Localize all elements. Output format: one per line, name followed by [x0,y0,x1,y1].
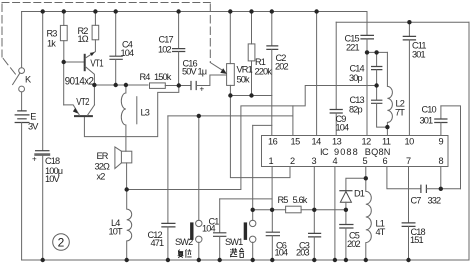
dashed link to switch lever [3,59,15,75]
junction C14 top [374,50,378,54]
svg-text:301: 301 [412,50,426,60]
svg-text:C17: C17 [159,35,174,45]
wire select net [253,209,286,211]
junction C14-C13 node [374,83,378,87]
junction pin3 / C3 node [312,208,316,212]
wire C15 node [367,51,387,53]
wire C12/SW2 net [168,106,293,136]
switch SW2 [198,116,200,220]
wire emitter rail y85 [94,84,148,86]
junction ground rail / SW1 [251,258,255,262]
capacitor C12 [167,116,169,223]
junction ground rail / C12 [166,258,170,262]
svg-text:VT1: VT1 [90,58,103,70]
bottom rail [22,259,469,261]
wire pin6 to C7 [387,167,421,189]
wire SW1 to pin16 riser [253,124,272,126]
junction ground rail / C5 [344,258,348,262]
svg-text:1Ω: 1Ω [78,34,89,44]
junction ground rail / L4 [125,258,129,262]
svg-text:7T: 7T [395,108,405,118]
capacitor C18 100u feed wire [42,12,44,151]
svg-text:7: 7 [406,156,411,166]
capacitor C16 [191,82,196,90]
wire left drop to switch [21,12,23,68]
resistor R4 [150,83,166,89]
junction C15 bottom node [365,50,369,54]
junction ground rail / C1 [218,258,222,262]
IC pin numbers and part number [268,137,444,167]
dashed enclosure top edge [2,2,210,4]
junction C4 / emitter wire [114,83,118,87]
reset label hanzi FU [178,250,184,258]
wire switch to battery [21,92,23,111]
resistor R5 [286,206,302,213]
svg-text:104: 104 [275,248,289,258]
svg-text:150k: 150k [154,72,172,82]
capacitor C14 [376,52,378,66]
junction top rail / C18 [41,9,45,13]
svg-text:50k: 50k [237,75,251,85]
potentiometer VR1 [229,12,231,64]
capacitor C17 [178,12,180,49]
svg-text:4T: 4T [376,227,386,237]
svg-text:32Ω: 32Ω [95,161,111,171]
junction top rail / R2 [93,9,97,13]
svg-text:9088: 9088 [334,147,359,157]
junction top rail / C17 [176,9,180,13]
capacitor C6 [271,210,273,232]
svg-text:R5: R5 [278,195,289,205]
junction pin1 / C6 node [270,208,274,212]
select label hanzi TAI [239,248,244,257]
SW2 button bar (within switch group) [198,242,200,260]
capacitor C15 [366,12,368,36]
svg-text:10T: 10T [109,227,124,237]
svg-text:SW2: SW2 [175,237,193,247]
VR1 adjust arrow [220,68,227,74]
svg-text:332: 332 [428,196,442,206]
svg-text:301: 301 [420,116,434,126]
wire pin5 node [365,167,367,179]
VT2 emitter arrow [73,108,78,114]
junction ground rail / C18 151 [406,258,410,262]
svg-text:104: 104 [336,123,350,133]
junction L3 top [124,83,128,87]
inductor L3 [121,85,126,151]
svg-text:IC: IC [320,147,329,157]
inductor L1 [366,178,372,260]
svg-text:9014x2: 9014x2 [65,75,94,87]
junction speaker / L4 node [125,187,129,191]
Chinese labels drawn as strokes: fuwei (reset) under SW2, xuantai (select) under SW1 [178,248,244,258]
svg-text:C13: C13 [350,95,365,105]
svg-text:6: 6 [383,156,388,166]
svg-text:16: 16 [268,137,278,147]
junction top rail / R1 [249,9,253,13]
capacitor C1 [220,198,272,200]
wire pin11 riser [386,127,388,135]
svg-text:221: 221 [346,43,360,53]
transistor VT1 [84,55,86,70]
junction pin5 / D1 / L1 node [364,176,368,180]
svg-text:L3: L3 [141,108,150,118]
capacitor C13 [372,100,382,103]
junction R4-C17-C16 node [177,83,181,87]
capacitor C4 [115,12,117,56]
capacitor C7 [421,185,427,192]
junction top rail / VR1 [228,9,232,13]
wire VT2 base net [84,86,178,137]
inductor L2 [387,52,392,127]
svg-text:C14: C14 [350,64,365,74]
junction ground rail / C18 [41,258,45,262]
L3 core bar [136,97,138,124]
svg-text:3V: 3V [28,121,39,131]
wire VR1/R1/C2 node [230,95,271,97]
wire pin12 riser [366,52,368,135]
junction L2 bottom / pin11 [385,125,389,129]
switch K [19,68,25,74]
resistor R3 [63,12,65,26]
svg-text:R1: R1 [255,57,266,67]
dashed enclosure right edge [209,4,211,62]
svg-text:1: 1 [269,156,274,166]
VT1 collector-side arrow [90,52,95,56]
svg-text:13: 13 [332,137,342,147]
capacitor C10 [440,106,442,119]
junction SW2 tap [197,114,201,118]
second supply rail y22 [336,21,469,23]
svg-text:151: 151 [410,235,424,245]
svg-text:C7: C7 [411,196,422,206]
wire VR1 to pin2 [230,96,290,178]
transistor VT2 [75,115,92,117]
wire battery to bottom rail [21,123,23,261]
junction top rail / R3 [62,9,66,13]
svg-text:D1: D1 [354,189,365,199]
battery E [15,111,29,123]
junction R1 bottom [249,93,253,97]
svg-text:10V: 10V [45,174,61,184]
junction VR1 bottom node [228,93,232,97]
svg-text:4: 4 [333,156,338,166]
junction R3 / VT1 base [62,60,66,64]
junction pin8 / C7 node [439,187,443,191]
junction top rail / C2 [270,9,274,13]
capacitor C18 100u [36,150,49,152]
junction top rail / pin14 riser [314,9,318,13]
svg-text:3: 3 [312,156,317,166]
wire pin8 drop [440,167,442,189]
svg-text:VR1: VR1 [237,65,253,75]
capacitor C9 / pin13 [335,22,337,109]
resistor R1 [251,12,253,44]
IC 9088 box [262,136,449,167]
svg-text:E: E [30,112,36,122]
wire VT1 base [64,61,84,63]
svg-text:104: 104 [121,48,135,58]
wire pin1 drop [271,167,273,210]
svg-text:82p: 82p [349,105,363,115]
svg-text:202: 202 [347,239,361,249]
capacitor C2 [271,12,273,46]
reset label hanzi WEI [185,249,191,258]
svg-text:202: 202 [275,62,289,72]
capacitor C5 [345,210,347,224]
junction top rail / C4 [114,9,118,13]
svg-text:1k: 1k [47,39,56,49]
wire pin14 riser [316,12,318,136]
svg-text:9: 9 [439,137,444,147]
select label hanzi XUAN [230,248,237,257]
speaker ER [121,151,131,163]
svg-text:15: 15 [291,137,301,147]
svg-text:220k: 220k [255,67,273,77]
svg-text:C18: C18 [45,156,60,166]
junction SW1 top node [251,208,255,212]
junction ground rail / C3 [312,258,316,262]
right side rail [468,22,470,260]
junction ground rail / pin4 [333,258,337,262]
capacitor C11 [408,22,410,36]
wire pin4 to ground [334,167,336,261]
dashed enclosure left edge [1,4,3,57]
svg-text:10: 10 [405,137,415,147]
svg-text:x2: x2 [97,172,106,182]
wire speaker node to quench net [127,86,377,190]
wire pin7 / capacitor C18 151 [408,167,410,223]
dashed link arrow line to VR1 [210,63,222,71]
junction rail2 / C11 [407,20,411,24]
junction D1 / C5 / R5 node [344,208,348,212]
svg-text:14: 14 [312,137,322,147]
svg-text:30p: 30p [349,73,363,83]
svg-text:VT2: VT2 [76,96,89,108]
inductor L4 [127,190,132,261]
wire C16 to VR1 wiper [196,75,226,86]
svg-text:R4: R4 [140,72,151,82]
svg-text:ER: ER [97,151,109,161]
svg-text:R3: R3 [47,29,58,39]
svg-text:SW1: SW1 [225,237,243,247]
circled figure number 2 [53,234,70,251]
svg-text:5: 5 [363,156,368,166]
svg-text:104: 104 [202,224,216,234]
svg-text:102: 102 [158,45,172,55]
svg-text:8: 8 [439,156,444,166]
svg-text:50V 1μ: 50V 1μ [182,67,207,77]
svg-text:2: 2 [58,236,65,250]
svg-text:K: K [25,75,32,85]
wire C2 to pin16 [271,50,273,136]
diode D1 [346,178,366,190]
svg-text:11: 11 [382,137,391,147]
wire pin3 / capacitor C3 [313,167,315,234]
junction ground rail / C6 [270,258,274,262]
svg-text:BQ8N: BQ8N [365,147,391,157]
svg-text:5.6k: 5.6k [293,195,308,205]
junction ground rail / SW2 [197,258,201,262]
resistor R2 [94,12,96,26]
wire right riser C10/pin8 [441,106,461,189]
svg-text:12: 12 [362,137,372,147]
svg-text:471: 471 [151,238,165,248]
junction ground rail / L1 [364,258,368,262]
switch SW1 [252,125,254,220]
arrowheads [73,52,227,114]
svg-text:203: 203 [296,248,310,258]
junction VT1 emitter node [92,83,96,87]
svg-text:C10: C10 [422,105,437,115]
top supply rail [22,11,367,13]
svg-text:2: 2 [290,156,295,166]
